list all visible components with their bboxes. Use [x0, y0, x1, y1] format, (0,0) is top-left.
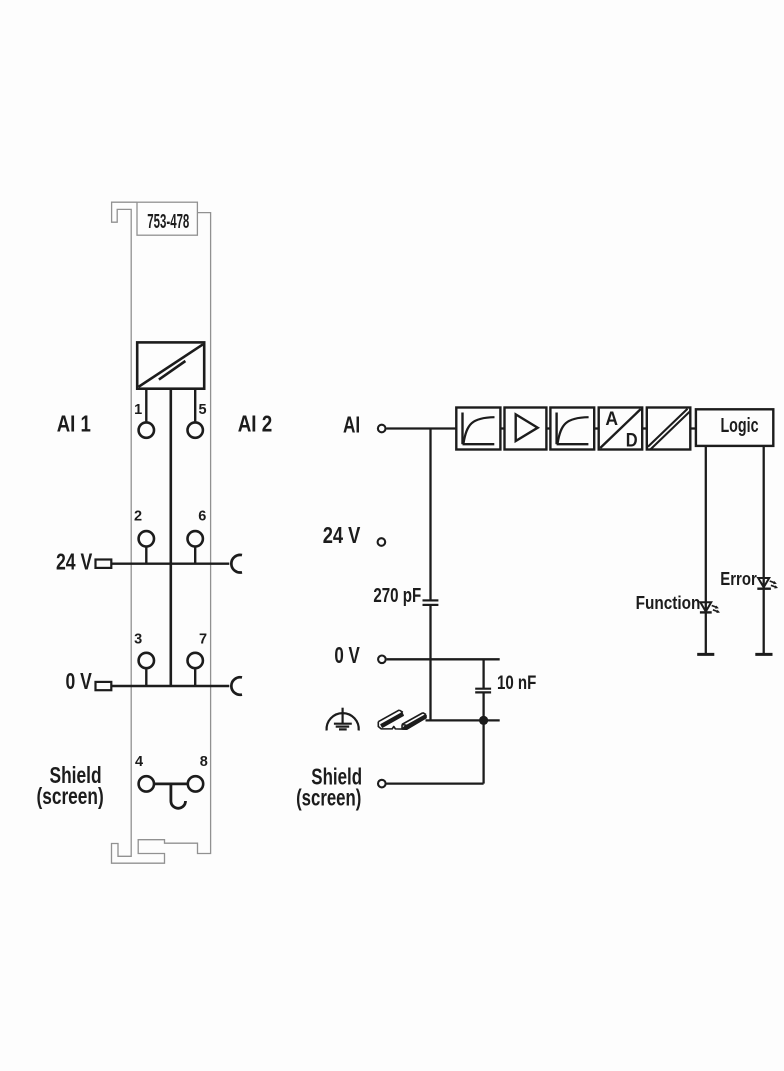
isolation block U3 [647, 408, 691, 450]
termination bar right [755, 653, 772, 656]
svg-text:AI 1: AI 1 [57, 411, 91, 437]
Logic output wire right [763, 446, 765, 655]
wire down to C2 [482, 659, 484, 688]
svg-text:A: A [605, 409, 618, 430]
pin 3 stub [145, 669, 147, 686]
svg-text:3: 3 [134, 632, 142, 648]
capacitor C2 10nF [475, 689, 491, 693]
24V wire [111, 563, 229, 565]
svg-text:D: D [626, 431, 638, 452]
shield link wire pins 4-8 [155, 783, 188, 786]
pin 7 stub [194, 669, 196, 686]
wire U2-U3 [642, 427, 647, 429]
pin 5 circle [188, 422, 203, 437]
svg-text:6: 6 [198, 509, 206, 525]
24V terminal circle right [378, 538, 386, 546]
Shield terminal circle right [378, 780, 386, 788]
svg-text:753-478: 753-478 [147, 210, 189, 233]
pin stub 1 [145, 389, 147, 422]
shield wire right [387, 782, 484, 784]
rail wire [426, 719, 500, 721]
svg-text:1: 1 [134, 402, 142, 418]
termination bar left [697, 653, 714, 656]
junction dot [479, 716, 488, 725]
transducer U1 box with diagonal [137, 342, 204, 388]
svg-text:24 V: 24 V [323, 522, 361, 548]
amplifier A1 [505, 408, 547, 450]
LED Function [700, 602, 720, 613]
capacitor C1 270pF [423, 600, 439, 605]
Logic output wire left [705, 446, 707, 655]
AI wire [386, 427, 456, 429]
svg-text:5: 5 [198, 402, 206, 418]
pin 1 circle [139, 422, 154, 437]
wire C1 down [429, 605, 431, 721]
A/D converter U2 [599, 408, 643, 450]
DIN rail symbol [378, 710, 426, 729]
0V wire [111, 685, 229, 687]
wire F1-A1 [500, 427, 504, 429]
filter block F1 [456, 408, 500, 450]
shield wire up [482, 720, 484, 783]
label box 753-478 [137, 202, 197, 235]
wire U3-Logic [690, 427, 696, 429]
svg-text:4: 4 [135, 754, 143, 770]
pin stub 5 [194, 389, 196, 422]
svg-text:7: 7 [199, 632, 207, 648]
pin 2 circle [139, 531, 154, 546]
0V square terminal [96, 682, 112, 690]
pin 2 stub [145, 548, 147, 564]
pin 8 circle [188, 776, 203, 791]
0V wire right [387, 658, 500, 660]
pin 6 circle [188, 531, 203, 546]
pin 4 circle [139, 776, 154, 791]
svg-text:(screen): (screen) [37, 783, 104, 809]
pin 3 circle [139, 653, 154, 668]
0V terminal circle right [378, 656, 386, 664]
svg-text:270 pF: 270 pF [373, 585, 421, 607]
svg-text:Error: Error [720, 569, 757, 589]
svg-text:AI 2: AI 2 [238, 411, 273, 437]
svg-text:0 V: 0 V [66, 668, 93, 694]
LED Error [757, 578, 778, 589]
wire A1-F2 [546, 427, 550, 429]
svg-text:Logic: Logic [720, 414, 758, 437]
shield hook [171, 784, 186, 808]
Logic box [696, 409, 773, 446]
svg-text:24 V: 24 V [56, 548, 93, 574]
svg-text:Function: Function [636, 593, 701, 613]
svg-text:(screen): (screen) [296, 784, 361, 810]
svg-text:8: 8 [200, 754, 208, 770]
24V socket arc [231, 555, 242, 573]
wire C2 to rail [482, 692, 484, 720]
module outline left side [112, 202, 211, 863]
pin 6 stub [194, 548, 196, 564]
wire F2-U2 [594, 427, 599, 429]
svg-text:10 nF: 10 nF [497, 672, 536, 694]
svg-text:0 V: 0 V [334, 642, 360, 668]
pin 7 circle [188, 653, 203, 668]
internal bus wire [170, 389, 173, 686]
noiseless earth symbol [327, 708, 359, 731]
svg-text:2: 2 [134, 509, 142, 525]
AI branch wire down [429, 429, 431, 601]
AI terminal circle [378, 425, 386, 433]
24V square terminal [96, 560, 112, 568]
svg-text:AI: AI [343, 412, 360, 438]
0V socket arc [231, 677, 242, 695]
filter block F2 [550, 408, 594, 450]
